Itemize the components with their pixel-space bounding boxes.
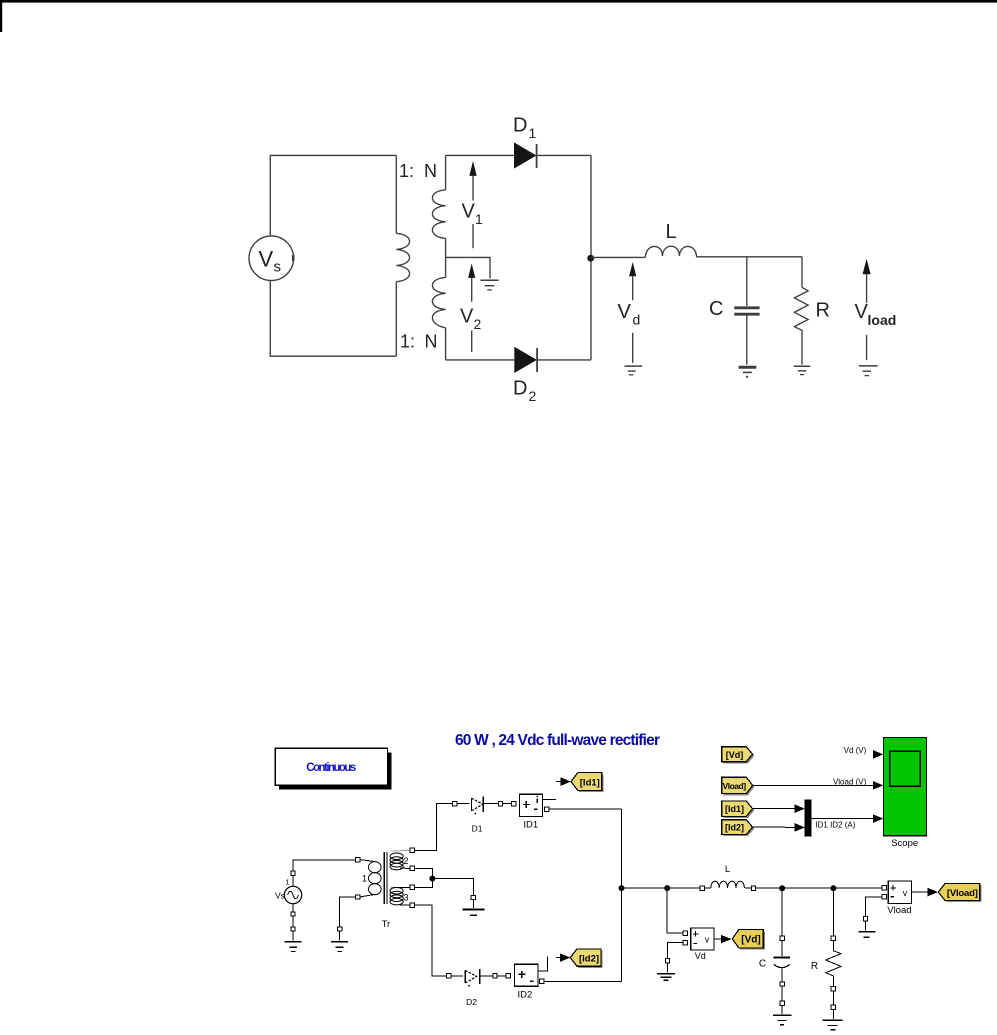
svg-text:C: C: [709, 298, 723, 320]
svg-text:ID2: ID2: [518, 990, 533, 1001]
ground block R: [823, 1005, 843, 1030]
diode D2: [447, 969, 511, 1007]
mux block: [805, 800, 811, 836]
wire Vs to ground: [292, 916, 294, 927]
ground block Vd: [657, 959, 675, 981]
wire mux to scope: [811, 818, 873, 820]
svg-text:V: V: [618, 301, 632, 323]
diode D1: [514, 142, 536, 168]
voltage measurement Vd: [683, 928, 714, 961]
wire from Vload tag to scope: [753, 784, 874, 786]
svg-text:ID1: ID1: [523, 820, 538, 831]
wire winding3 top to center tap: [415, 879, 433, 888]
transformer Tr: [355, 848, 414, 930]
svg-text:2: 2: [404, 856, 409, 866]
svg-text:60 W , 24 Vdc full-wave recti: 60 W , 24 Vdc full-wave rectifier: [455, 732, 660, 749]
wire Vd - to ground: [668, 943, 684, 959]
annotation arrow V2: [468, 264, 475, 278]
arrow into mux input 1: [795, 804, 805, 813]
from tag Vd: [722, 747, 755, 764]
annotation arrow Vd: [629, 262, 636, 276]
diode D2: [514, 347, 537, 373]
label D1: [513, 115, 537, 405]
svg-text:[Id2]: [Id2]: [725, 823, 744, 833]
wire load line left: [622, 887, 701, 889]
ground block under Vs: [285, 927, 302, 952]
page top border: [0, 0, 997, 32]
svg-text:[Vd]: [Vd]: [741, 935, 760, 946]
signal into goto Id2: [556, 953, 570, 962]
svg-text:[Id1]: [Id1]: [725, 804, 744, 814]
wire from Id2 tag to mux: [753, 826, 796, 828]
svg-text:[Vd]: [Vd]: [726, 750, 744, 760]
current measurement ID1: [520, 794, 556, 830]
signal into goto Id1: [556, 777, 571, 786]
label 1:N top: [399, 161, 438, 352]
wire R to ground: [832, 991, 834, 1005]
wire: bottom rail: [446, 359, 515, 361]
ground Vd: [625, 365, 643, 367]
goto tag Id2: [570, 949, 602, 968]
svg-text:D1: D1: [472, 824, 483, 834]
svg-text:R: R: [811, 961, 818, 972]
svg-text:D: D: [513, 115, 527, 137]
from tag Id2: [722, 820, 755, 836]
ground C: [739, 366, 757, 369]
wire ID2 out to bus: [544, 980, 621, 982]
signal arrow into scope input 1: [873, 750, 883, 759]
svg-text:N: N: [424, 161, 437, 181]
annotation arrow Vload: [863, 259, 871, 275]
wire Vload - to ground: [866, 897, 882, 917]
inductor: transformer secondary winding 1: [432, 190, 445, 239]
svg-text:Vd: Vd: [695, 951, 706, 961]
wire winding2 top to D1: [415, 804, 453, 851]
wire: primary right upper: [395, 155, 397, 233]
inductor L: [645, 246, 696, 257]
inductor: transformer primary winding: [396, 233, 409, 281]
svg-text:1: 1: [362, 874, 367, 884]
wire: node to inductor L: [591, 256, 645, 258]
wire: top rail: [446, 154, 514, 156]
node R tap: [831, 886, 836, 891]
wire Tr primary return: [340, 897, 356, 927]
signal arrow into scope input 2: [873, 781, 883, 790]
ground block C: [773, 1001, 792, 1025]
powergui block Continuous: [275, 748, 391, 789]
wire right bus vertical: [621, 809, 623, 981]
voltage source Vs: [249, 236, 294, 281]
svg-text:R: R: [816, 300, 830, 322]
svg-text:Scope: Scope: [891, 838, 918, 849]
AC source Vs: [275, 860, 355, 916]
svg-text:Tr: Tr: [382, 919, 391, 930]
label V2: [460, 306, 482, 333]
label Vd: [618, 301, 641, 328]
svg-text:3: 3: [404, 893, 409, 903]
wire Vd + lead: [667, 888, 683, 933]
wire from Id1 tag to mux: [753, 808, 796, 810]
node bus to load line: [619, 886, 624, 891]
svg-text:[Id2]: [Id2]: [579, 953, 599, 964]
ground center tap: [480, 279, 498, 281]
wire load line right: [756, 887, 882, 889]
svg-text:Vload: Vload: [887, 905, 911, 916]
wire winding2 bottom to center tap: [415, 868, 433, 878]
ground R: [794, 365, 811, 367]
wire winding3 bottom to D2: [415, 905, 447, 976]
voltage measurement Vload: [882, 881, 912, 916]
diode D1: [453, 797, 516, 834]
wire ID1 out to bus: [549, 808, 622, 810]
svg-text:Vload]: Vload]: [723, 781, 747, 791]
current measurement ID2: [514, 957, 547, 1001]
wire: primary right lower: [395, 282, 397, 357]
svg-text:load: load: [868, 312, 897, 328]
i output stub: [543, 798, 556, 800]
wire: secondary middle: [445, 238, 447, 277]
svg-text:[Vload]: [Vload]: [947, 888, 978, 899]
wire center tap to ground: [432, 879, 473, 896]
svg-text:C: C: [759, 959, 766, 970]
svg-text:Vload (V): Vload (V): [833, 777, 867, 786]
svg-text:V: V: [462, 201, 476, 223]
arrow into mux input 2: [795, 823, 805, 832]
svg-text:1:: 1:: [399, 161, 414, 181]
from tag Id1: [722, 801, 755, 818]
winding 3: [391, 886, 410, 888]
node center tap junction: [430, 876, 435, 881]
svg-text:2: 2: [474, 316, 482, 332]
svg-text:v: v: [705, 934, 710, 944]
svg-text:[Id1]: [Id1]: [580, 777, 600, 788]
label Vs: [259, 247, 282, 276]
goto tag Id1: [571, 773, 604, 793]
node C tap: [780, 886, 785, 891]
i output stub: [538, 957, 548, 971]
capacitor C: [746, 257, 748, 306]
resistor R: [801, 257, 803, 288]
node Vd tap: [665, 886, 670, 891]
goto tag Vload: [938, 884, 981, 903]
scope block: [884, 737, 927, 848]
wire: L to R corner: [697, 256, 802, 258]
svg-text:1: 1: [286, 878, 290, 887]
svg-text:d: d: [633, 312, 641, 328]
svg-text:N: N: [425, 332, 438, 352]
label V1: [462, 201, 484, 228]
inductor L: [700, 864, 756, 890]
signal Vd to goto: [714, 935, 732, 944]
wire: secondary vertical bottom: [445, 328, 447, 360]
svg-text:D: D: [513, 378, 527, 400]
svg-text:V: V: [259, 247, 274, 272]
ground block Vload: [858, 917, 875, 938]
signal Vload to goto: [912, 888, 939, 897]
ground Vload: [859, 365, 878, 367]
svg-text:V: V: [460, 306, 474, 328]
svg-text:Vd (V): Vd (V): [844, 746, 867, 755]
svg-text:Continuous: Continuous: [306, 762, 356, 774]
svg-text:2: 2: [529, 388, 537, 404]
svg-text:1: 1: [475, 211, 483, 227]
wire: center tap: [446, 257, 490, 278]
svg-text:D2: D2: [466, 997, 477, 1007]
annotation arrow V1: [469, 161, 476, 176]
svg-text:1: 1: [529, 125, 537, 141]
goto tag Vd: [732, 930, 765, 950]
ground block under Tr: [331, 927, 348, 952]
capacitor C block: [759, 888, 790, 986]
from tag Vload: [722, 777, 755, 795]
ground block center tap: [462, 895, 484, 915]
node: rectifier output: [587, 255, 594, 262]
svg-text:v: v: [903, 888, 908, 898]
svg-text:Vs: Vs: [275, 891, 285, 901]
svg-text:ID1 ID2 (A): ID1 ID2 (A): [815, 821, 855, 830]
inductor: transformer secondary winding 2: [432, 277, 445, 327]
wire: primary loop top: [270, 155, 396, 356]
wire: right bus of rectifier: [590, 155, 592, 360]
resistor R block: [811, 888, 841, 991]
winding 2: [391, 850, 410, 852]
svg-text:L: L: [666, 221, 677, 243]
svg-text:s: s: [274, 259, 282, 276]
label Vload: [855, 301, 897, 328]
svg-text:L: L: [725, 864, 730, 875]
svg-text:1:: 1:: [400, 332, 415, 352]
signal arrow into scope input 3: [873, 814, 883, 823]
wire C to ground: [781, 986, 783, 1001]
svg-text:V: V: [855, 301, 869, 323]
wire: secondary vertical top: [445, 155, 447, 189]
